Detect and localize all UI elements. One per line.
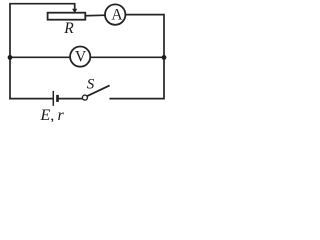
svg-text:A: A bbox=[111, 6, 123, 23]
svg-text:E, r: E, r bbox=[40, 107, 65, 122]
svg-text:V: V bbox=[75, 49, 87, 66]
svg-text:S: S bbox=[87, 77, 95, 93]
svg-text:R: R bbox=[63, 20, 74, 37]
